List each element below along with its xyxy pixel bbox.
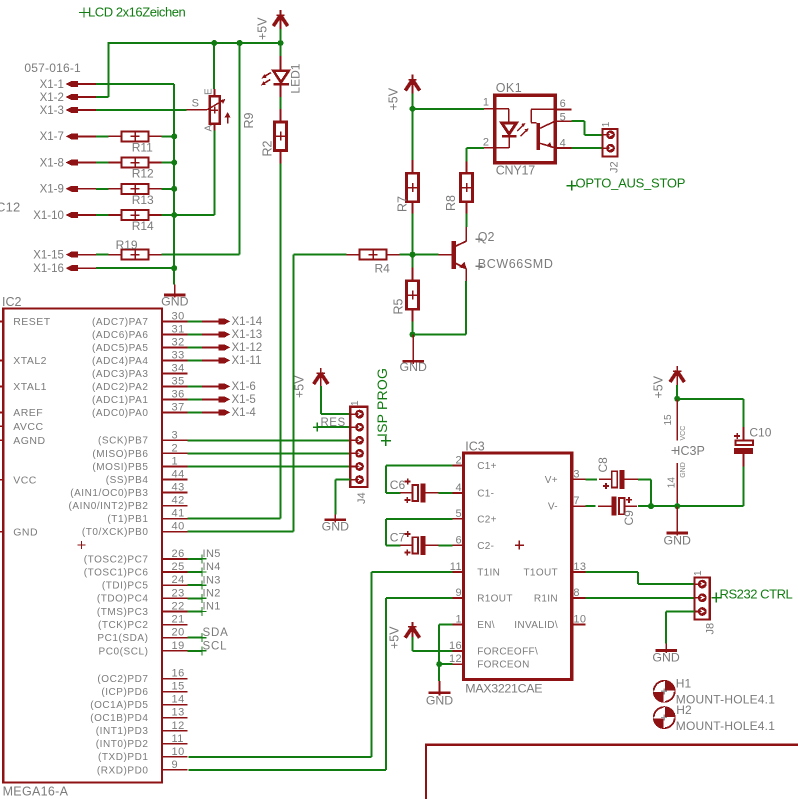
svg-text:(TOSC2)PC7: (TOSC2)PC7: [84, 554, 149, 565]
svg-text:PC1(SDA): PC1(SDA): [97, 633, 148, 644]
IC2 left pin RESET: [0, 320, 3, 322]
svg-text:OPTO_AUS_STOP: OPTO_AUS_STOP: [576, 176, 686, 191]
svg-text:(SS)PB4: (SS)PB4: [106, 475, 149, 486]
junction R11 at GND bus: [171, 133, 177, 139]
svg-text:(RXD)PD0: (RXD)PD0: [97, 765, 149, 776]
svg-text:R5: R5: [392, 298, 406, 314]
wire R1IN to J8 pin2: [585, 597, 694, 599]
wire +5V top rail: [108, 42, 281, 44]
svg-text:V+: V+: [545, 475, 558, 486]
junction R13 at GND bus: [171, 186, 177, 192]
junction R14 at GND bus: [171, 212, 177, 218]
svg-text:GND: GND: [664, 534, 691, 548]
svg-text:X1-10: X1-10: [33, 210, 64, 222]
wire C6 to IC3 pin4: [438, 492, 452, 494]
svg-text:5: 5: [560, 112, 566, 124]
+5V supply symbol (OK1): [412, 75, 414, 94]
svg-text:XTAL2: XTAL2: [13, 355, 47, 367]
IC3 MAX3221 box: [464, 453, 572, 679]
svg-text:IC3P: IC3P: [677, 444, 705, 458]
svg-text:(ICP)PD6: (ICP)PD6: [101, 687, 148, 698]
svg-text:15: 15: [663, 414, 674, 426]
svg-text:14: 14: [667, 477, 678, 489]
svg-text:(TDO)PC4: (TDO)PC4: [97, 594, 149, 605]
resistor R13: [122, 184, 149, 194]
svg-text:IN1: IN1: [203, 601, 221, 613]
IC3 pin 3 V+: [572, 478, 586, 480]
wire R19 right to +5V branch: [162, 254, 240, 256]
wire C7 to IC3 pin6: [438, 544, 452, 546]
wire R4 to Q2 base: [400, 254, 439, 256]
IC3 pin 5 C2+: [453, 518, 464, 520]
net label IN2: [188, 597, 202, 599]
IC2 left pin AVCC: [0, 425, 3, 427]
svg-text:XTAL1: XTAL1: [13, 381, 47, 393]
IC3P name: [672, 447, 679, 454]
svg-text:ISP PROG: ISP PROG: [374, 368, 390, 437]
svg-text:+5V: +5V: [388, 626, 402, 649]
svg-text:IN4: IN4: [203, 561, 221, 573]
net label ISP PROG: [381, 436, 391, 446]
svg-text:X1-13: X1-13: [232, 329, 263, 341]
svg-text:(ADC4)PA4: (ADC4)PA4: [92, 356, 148, 367]
connector pin X1-7: [66, 133, 78, 139]
svg-text:(TMS)PC3: (TMS)PC3: [97, 607, 149, 618]
svg-text:(AIN0/INT2)PB2: (AIN0/INT2)PB2: [69, 501, 149, 512]
svg-text:INVALID\: INVALID\: [514, 620, 558, 631]
svg-text:(ADC6)PA6: (ADC6)PA6: [92, 330, 148, 341]
junction IC3P +5V: [674, 396, 680, 402]
wire C9 to GND node: [638, 505, 651, 507]
connector J2: [602, 129, 617, 157]
wire LED1 to R2: [280, 97, 282, 109]
wire R12 right: [162, 162, 175, 164]
Q2 value BCW66SMD: [475, 263, 482, 270]
resistor R11: [122, 131, 149, 141]
svg-text:IN2: IN2: [203, 588, 221, 600]
svg-text:LED1: LED1: [289, 63, 303, 93]
svg-text:X1-8: X1-8: [40, 157, 64, 169]
svg-text:SDA: SDA: [203, 627, 229, 639]
wire IC2 PB6 to J4: [188, 452, 351, 454]
IC3 pin 11 T1IN: [453, 571, 464, 573]
net label SDA: [188, 637, 202, 639]
ground symbol below J8: [665, 644, 667, 654]
IC2 left pin XTAL2: [0, 359, 3, 361]
svg-text:J8: J8: [705, 623, 717, 635]
svg-text:(INT0)PD2: (INT0)PD2: [96, 739, 149, 750]
wire+arrow X1-4: [188, 411, 219, 413]
resistor R12: [122, 158, 149, 168]
ground symbol IC3P: [676, 506, 678, 536]
svg-text:Q2: Q2: [478, 230, 495, 244]
net label IN5: [188, 558, 202, 560]
svg-text:X1-4: X1-4: [232, 407, 257, 419]
svg-text:R11: R11: [132, 140, 153, 154]
svg-text:FORCEON: FORCEON: [477, 660, 529, 671]
svg-text:2: 2: [483, 136, 489, 148]
svg-text:(ADC3)PA3: (ADC3)PA3: [92, 369, 148, 380]
svg-text:(TCK)PC2: (TCK)PC2: [98, 620, 149, 631]
capacitor C8: [612, 471, 618, 487]
Q2 name: [475, 236, 482, 243]
OK1 pin 1: [484, 108, 495, 110]
resistor R5: [407, 281, 419, 310]
svg-text:OK1: OK1: [496, 81, 523, 95]
svg-text:R13: R13: [132, 193, 154, 207]
wire GND vertical bus: [173, 84, 175, 285]
junction on rail at R19 branch: [237, 40, 243, 46]
svg-text:AGND: AGND: [13, 435, 45, 447]
trimmer potentiometer R9: [210, 96, 220, 123]
IC3 pin 13 T1OUT: [572, 571, 586, 573]
wire IC2 PB7 to J4: [188, 439, 351, 441]
wire pot A down: [214, 131, 216, 216]
svg-text:(T1)PB1: (T1)PB1: [107, 514, 148, 525]
+5V supply symbol (IC3P): [676, 366, 678, 385]
svg-text:(MISO)PB6: (MISO)PB6: [92, 449, 148, 460]
svg-text:R9: R9: [242, 112, 256, 128]
svg-text:+5V: +5V: [293, 375, 307, 398]
wire R8 to Q2 collector: [466, 214, 468, 228]
svg-text:C1-: C1-: [477, 489, 494, 500]
wire C8 to GND corner: [638, 478, 651, 480]
net label IN3: [188, 584, 202, 586]
wire pot A to GND bus: [174, 214, 214, 216]
wire R1OUT to IC2 RXD: [386, 597, 452, 599]
svg-text:R12: R12: [132, 167, 154, 181]
resistor R8: [461, 173, 473, 202]
connector J8: [695, 578, 710, 620]
svg-text:1: 1: [601, 121, 612, 127]
wire X1-3 to pot wiper: [96, 109, 187, 111]
net label LCD 2x16Zeichen: [79, 8, 89, 18]
junction C8/C9 GND: [648, 503, 654, 509]
svg-text:(INT1)PD3: (INT1)PD3: [96, 726, 149, 737]
wire GND node to IC3P: [651, 505, 677, 507]
wire Q2 emitter to GND node: [465, 281, 467, 334]
svg-text:C1+: C1+: [477, 461, 497, 472]
wire+arrow X1-5: [188, 398, 219, 400]
svg-text:S: S: [192, 98, 199, 110]
LED LED1: [280, 43, 282, 56]
svg-text:C6: C6: [390, 478, 406, 492]
svg-text:+5V: +5V: [387, 87, 401, 110]
svg-text:H1: H1: [676, 676, 692, 690]
svg-text:C12: C12: [0, 199, 20, 214]
IC2 MEGA16-A box: [3, 309, 162, 783]
IC3 pin 16 FORCEOFF\: [453, 650, 464, 652]
svg-text:A: A: [204, 125, 215, 132]
svg-text:VCC: VCC: [680, 426, 687, 441]
svg-text:X1-12: X1-12: [232, 342, 263, 354]
wire IC3 C1+ jog: [386, 465, 452, 467]
capacitor C9: [611, 497, 616, 516]
connector J4: [350, 407, 367, 487]
wire R12 left: [96, 162, 109, 164]
svg-text:IC3: IC3: [465, 440, 485, 454]
wire X1-1 to GND rail: [96, 83, 174, 85]
wire R13 right: [162, 188, 175, 190]
OK1 pin 5: [555, 120, 571, 122]
net stub RES: [317, 426, 350, 428]
IC3 origin cross: [515, 541, 524, 550]
ground symbol below Q2: [412, 335, 414, 364]
junction on rail at LED branch: [278, 40, 284, 46]
svg-text:V-: V-: [548, 502, 558, 513]
svg-text:C8: C8: [596, 457, 610, 473]
net label OPTO_AUS_STOP: [567, 181, 577, 191]
wire R5 to GND node: [412, 321, 414, 334]
svg-text:BCW66SMD: BCW66SMD: [478, 257, 554, 271]
wire IC3 V+ to C8: [585, 478, 597, 480]
svg-text:GND: GND: [680, 462, 687, 478]
wire +5V to OK1 pin1: [413, 108, 485, 110]
svg-text:GND: GND: [161, 295, 188, 309]
svg-text:(ADC7)PA7: (ADC7)PA7: [92, 317, 148, 328]
wire IC2 PB5 to J4: [188, 465, 351, 467]
net label RS232 CTRL: [711, 593, 721, 603]
svg-text:1: 1: [455, 613, 462, 625]
svg-text:RES: RES: [321, 417, 346, 429]
net label IN1: [188, 610, 202, 612]
wire OK1 pin5 to J2 pin1: [572, 120, 585, 122]
wire rail to pot E: [213, 43, 215, 89]
connector pin X1-16: [66, 265, 78, 271]
svg-text:X1-15: X1-15: [33, 249, 64, 261]
svg-text:(TDI)PC5: (TDI)PC5: [102, 581, 149, 592]
svg-text:(TXD)PD1: (TXD)PD1: [98, 752, 149, 763]
connector pin X1-10: [66, 212, 78, 218]
svg-text:GND: GND: [652, 651, 679, 665]
svg-text:(ADC0)PA0: (ADC0)PA0: [92, 408, 148, 419]
wire R14 right: [162, 214, 175, 216]
svg-text:(SCK)PB7: (SCK)PB7: [98, 436, 149, 447]
wire J4 pin6 to GND: [335, 479, 350, 481]
wire C10 to GND node: [742, 466, 744, 506]
svg-text:10: 10: [573, 613, 586, 625]
wire R11 right: [162, 135, 175, 137]
svg-text:13: 13: [573, 561, 586, 573]
wire R11 left: [96, 135, 109, 137]
wire IC3 V- to C9: [585, 505, 595, 507]
svg-text:C9: C9: [622, 510, 636, 526]
svg-text:2: 2: [455, 455, 462, 467]
wire +5V branch vertical: [239, 43, 241, 255]
svg-text:6: 6: [560, 98, 566, 110]
svg-text:(ADC2)PA2: (ADC2)PA2: [92, 382, 148, 393]
svg-text:+5V: +5V: [652, 375, 666, 398]
svg-text:1: 1: [350, 400, 361, 406]
IC3 pin 1 EN\: [453, 623, 464, 625]
wire T1OUT to J8 pin1: [585, 571, 638, 573]
svg-text:GND: GND: [426, 694, 453, 708]
svg-text:(T0/XCK)PB0: (T0/XCK)PB0: [82, 527, 149, 538]
connector pin X1-1: [66, 81, 78, 87]
svg-text:X1-11: X1-11: [232, 355, 262, 367]
wire+arrow X1-12: [188, 346, 219, 348]
junction on rail at pot E: [211, 40, 217, 46]
IC3 pin 12 FORCEON: [453, 663, 464, 665]
svg-text:3: 3: [573, 468, 580, 480]
resistor R2: [275, 122, 287, 151]
connector pin X1-2: [66, 94, 78, 100]
wire+arrow X1-13: [188, 333, 219, 335]
IC3 pin 10 INVALID\: [572, 623, 586, 625]
resistor R14: [122, 210, 149, 220]
svg-text:X1-5: X1-5: [232, 394, 256, 406]
svg-text:4: 4: [560, 138, 566, 150]
IC2 left pin AGND: [0, 439, 3, 441]
wire R19 left: [96, 254, 109, 256]
svg-text:C2+: C2+: [477, 514, 497, 525]
IC2 left pin VCC: [0, 479, 3, 481]
svg-text:(AIN1/OC0)PB3: (AIN1/OC0)PB3: [70, 488, 148, 499]
junction base node: [410, 252, 416, 258]
svg-text:X1-2: X1-2: [40, 92, 64, 104]
IC3 pin 9 R1OUT: [453, 597, 464, 599]
svg-text:MOUNT-HOLE4.1: MOUNT-HOLE4.1: [676, 719, 775, 733]
ground symbol above IC2: [173, 268, 175, 284]
wire OK1 pin2 to R8: [467, 147, 485, 149]
IC2 left pin AREF: [0, 411, 3, 413]
svg-text:8: 8: [573, 587, 580, 599]
wire X1-2 to +5V: [96, 96, 109, 98]
svg-text:AVCC: AVCC: [13, 421, 43, 433]
svg-text:057-016-1: 057-016-1: [24, 61, 81, 75]
connector pin X1-8: [66, 160, 78, 166]
IC3 pin 7 V-: [572, 505, 586, 507]
svg-text:R7: R7: [396, 196, 410, 212]
net label SCL: [188, 650, 202, 652]
wire T1IN to IC2 TXD: [372, 571, 453, 573]
svg-text:AREF: AREF: [13, 407, 43, 419]
svg-text:1: 1: [693, 570, 704, 576]
adjacent sheet frame: [426, 745, 798, 799]
wire +5V to FORCEOFF: [411, 637, 413, 651]
svg-text:R1OUT: R1OUT: [477, 594, 513, 605]
svg-text:IN3: IN3: [203, 574, 221, 586]
IC3 pin 6 C2-: [453, 544, 464, 546]
OK1 pin 4: [555, 147, 571, 149]
svg-text:5: 5: [455, 508, 462, 520]
+5V supply symbol (EN, tilted): [411, 622, 413, 641]
svg-text:X1-6: X1-6: [232, 381, 256, 393]
ground symbol below IC3: [438, 664, 440, 681]
optocoupler OK1 box: [495, 95, 555, 162]
OK1 internal LED: [495, 108, 509, 110]
capacitor C10: [742, 427, 744, 441]
svg-text:LCD 2x16Zeichen: LCD 2x16Zeichen: [88, 4, 186, 19]
svg-text:MEGA16-A: MEGA16-A: [3, 785, 69, 799]
+5V supply symbol (top rail): [280, 10, 282, 29]
ground symbol below X1 bus: [174, 285, 176, 298]
svg-text:GND: GND: [322, 520, 349, 534]
svg-text:R14: R14: [132, 219, 154, 233]
resistor R4: [360, 250, 387, 260]
IC3 pin 2 C1+: [453, 465, 464, 467]
svg-text:X1-7: X1-7: [40, 131, 64, 143]
svg-text:E: E: [204, 88, 215, 95]
wire+arrow X1-14: [188, 320, 219, 322]
wire base node to R4: [400, 254, 413, 256]
junction FORCEON: [436, 661, 442, 667]
svg-text:T1OUT: T1OUT: [523, 568, 558, 579]
wire J8 pin3 to GND: [666, 611, 695, 613]
wire X1-16 to GND bus: [96, 267, 174, 269]
svg-text:J4: J4: [356, 492, 368, 504]
svg-text:GND: GND: [13, 527, 38, 539]
svg-text:VCC: VCC: [13, 474, 37, 486]
junction R12 at GND bus: [171, 160, 177, 166]
svg-text:X1-3: X1-3: [40, 105, 64, 117]
connector pin X1-15: [66, 252, 78, 258]
IC2 left pin GND: [0, 531, 3, 533]
svg-text:IN5: IN5: [203, 548, 221, 560]
svg-text:4: 4: [455, 482, 462, 494]
ground symbol below J4: [334, 515, 336, 523]
svg-text:MAX3221CAE: MAX3221CAE: [465, 682, 542, 696]
wire +5V to J4 pin1: [320, 386, 322, 414]
svg-text:C7: C7: [390, 531, 406, 545]
wire EN to FORCEON: [439, 623, 452, 625]
svg-text:(OC1A)PD5: (OC1A)PD5: [90, 700, 148, 711]
svg-text:1: 1: [483, 97, 489, 109]
svg-text:X1-1: X1-1: [40, 79, 64, 91]
svg-text:X1-14: X1-14: [232, 316, 263, 328]
svg-text:7: 7: [573, 495, 580, 507]
IC3P VCC pin: [676, 399, 678, 441]
wire IC3 C2+ jog: [386, 518, 452, 520]
connector pin X1-9: [66, 186, 78, 192]
net label IN4: [188, 571, 202, 573]
transistor Q2: [451, 241, 456, 269]
svg-text:(ADC5)PA5: (ADC5)PA5: [92, 343, 148, 354]
svg-text:6: 6: [455, 534, 462, 546]
OK1 pin 6: [555, 108, 571, 110]
svg-text:X1-16: X1-16: [33, 263, 64, 275]
svg-text:CNY17: CNY17: [496, 164, 536, 178]
svg-text:R8: R8: [444, 195, 458, 211]
svg-text:FORCEOFF\: FORCEOFF\: [477, 647, 538, 658]
+5V supply symbol (J4, tilted): [320, 368, 322, 387]
IC2 origin cross: [78, 541, 86, 549]
svg-text:SCL: SCL: [203, 640, 228, 652]
wire +5V to C10: [677, 398, 743, 400]
mount hole H2: [654, 707, 675, 728]
junction R7 top: [410, 106, 416, 112]
capacitor C6: [413, 485, 419, 501]
svg-text:9: 9: [455, 587, 462, 599]
IC3 pin 4 C1-: [453, 492, 464, 494]
IC3P GND pin: [676, 463, 678, 506]
svg-text:GND: GND: [400, 360, 427, 374]
svg-text:H2: H2: [676, 703, 692, 717]
wire R2 to IC2 PB1: [280, 164, 282, 519]
svg-text:RS232 CTRL: RS232 CTRL: [720, 587, 793, 602]
capacitor C7: [413, 537, 419, 553]
wire R13 left: [96, 188, 109, 190]
svg-text:(OC1B)PD4: (OC1B)PD4: [90, 713, 148, 724]
wire base node to R5: [412, 255, 414, 269]
svg-text:(MOSI)PB5: (MOSI)PB5: [92, 462, 148, 473]
wire+arrow X1-11: [188, 359, 219, 361]
svg-text:T1IN: T1IN: [477, 568, 500, 579]
junction IC3P GND: [674, 503, 680, 509]
svg-text:R4: R4: [375, 261, 391, 275]
junction X1-16: [171, 265, 177, 271]
svg-text:EN\: EN\: [477, 620, 495, 631]
